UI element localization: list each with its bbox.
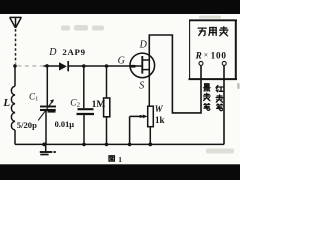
inductor L left column wire from node A	[14, 66, 16, 86]
wire: wiper down to ground rail	[129, 116, 131, 144]
svg-text:L: L	[2, 97, 10, 109]
transistor gate lead into circle	[130, 65, 141, 67]
terminal red probe	[222, 61, 226, 65]
label wan-yong-biao (multimeter)	[198, 28, 206, 36]
svg-text:D: D	[48, 47, 57, 58]
node B junction	[45, 64, 49, 68]
multimeter box	[189, 20, 238, 81]
ground junction node	[42, 143, 46, 147]
svg-text:W: W	[155, 104, 164, 114]
svg-text:G: G	[118, 55, 125, 66]
wire: coil bottom to ground rail	[14, 130, 16, 145]
svg-text:R: R	[195, 50, 202, 60]
capacitor C2 bottom lead	[83, 115, 85, 144]
antenna	[10, 17, 22, 28]
wire: node B to diode anode	[44, 65, 60, 67]
ground symbol	[45, 144, 47, 151]
label hong-biao-bi (red probe) vertical	[216, 85, 223, 91]
svg-text:×: ×	[204, 51, 209, 60]
wire: rail corner up to red probe	[223, 66, 225, 145]
gate arrow blob	[130, 65, 136, 68]
node: C2 on rail	[82, 143, 86, 147]
transistor channel bar	[141, 56, 143, 74]
wire: source down to potentiometer	[148, 78, 150, 107]
wire: diode cathode to gate rail	[69, 65, 130, 67]
bottom black film band	[0, 164, 240, 180]
faint bleed-through smudges upper area	[61, 16, 221, 31]
capacitor C2 plates	[78, 108, 94, 110]
svg-text:2: 2	[77, 102, 80, 109]
caption tu-1 (figure 1)	[109, 156, 114, 161]
svg-text:1: 1	[118, 155, 122, 164]
wire: antenna stem dashed	[15, 29, 17, 64]
svg-text:S: S	[139, 81, 144, 92]
svg-text:0.01μ: 0.01μ	[55, 120, 75, 129]
transistor drain arm	[142, 59, 149, 61]
bottom ground rail wire	[15, 143, 224, 145]
svg-text:1k: 1k	[155, 115, 165, 125]
transistor V FET circle	[130, 53, 155, 78]
node C junction (C2 tap)	[82, 64, 86, 68]
capacitor C2 top lead from node C	[83, 66, 85, 108]
diode D 2AP9	[59, 63, 66, 71]
resistor 1M top lead	[106, 66, 108, 98]
terminal black probe	[199, 61, 203, 65]
top black film band	[0, 0, 240, 14]
wire: dashed link node A to node B	[18, 65, 44, 67]
faint bleed-through smudges bottom right	[206, 83, 240, 154]
paper background	[0, 0, 240, 180]
capacitor C1 variable arrow	[38, 101, 53, 121]
transistor inner vertical lead	[148, 53, 150, 78]
potentiometer bottom lead	[149, 127, 151, 145]
transistor source arm	[142, 69, 149, 71]
svg-text:1: 1	[35, 97, 38, 103]
node: pot bottom on rail	[148, 143, 152, 147]
svg-text:D: D	[139, 40, 148, 51]
node A junction antenna/L	[13, 64, 17, 68]
svg-text:100: 100	[211, 50, 227, 60]
wire: drain up and over to meter loop	[149, 35, 201, 113]
node: 1M on rail	[105, 143, 109, 147]
inductor L coil	[11, 86, 15, 130]
capacitor C1 bottom lead	[45, 111, 47, 144]
potentiometer W body	[148, 106, 154, 127]
svg-text:2AP9: 2AP9	[62, 47, 85, 57]
node: wiper on rail	[128, 143, 132, 147]
resistor 1M bottom lead	[106, 117, 108, 145]
node junction (1M tap)	[105, 64, 109, 68]
svg-text:5/20p: 5/20p	[17, 120, 37, 130]
svg-text:1M: 1M	[92, 99, 106, 110]
label hei-biao-bi (black probe) vertical	[204, 84, 210, 91]
capacitor C1 top lead from node B	[46, 66, 48, 106]
resistor 1M body	[104, 98, 110, 117]
potentiometer wiper arrow	[130, 115, 144, 117]
capacitor C1 plates (variable)	[40, 106, 56, 108]
